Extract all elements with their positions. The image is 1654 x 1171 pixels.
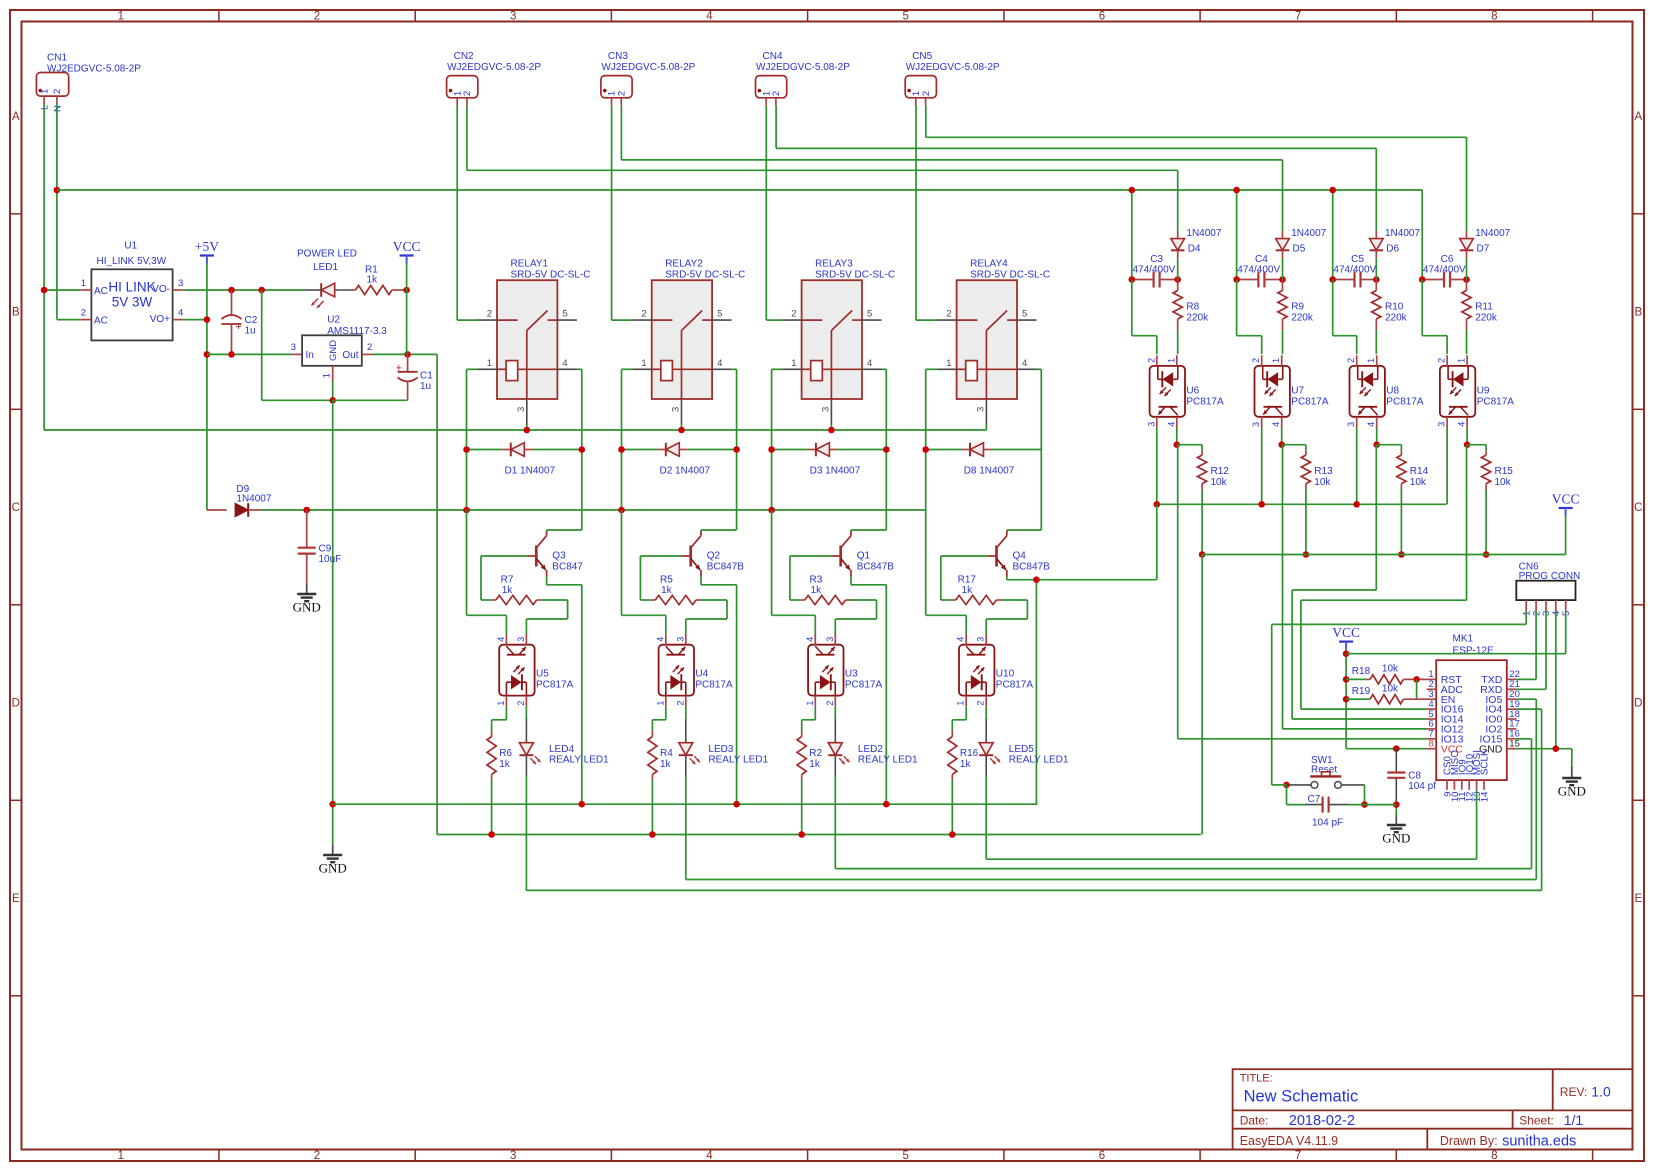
node D3 left junction: [768, 446, 775, 453]
svg-text:104 pF: 104 pF: [1312, 818, 1343, 829]
svg-text:2: 2: [367, 342, 372, 353]
power flag VCC at R18: [1332, 625, 1360, 650]
power module U1 HI_LINK 5V,3W: [80, 241, 184, 341]
optocoupler U9 PC817A: [1437, 355, 1515, 427]
wire VO+ to +5V: [184, 319, 207, 321]
wire opto pin4 down: [1376, 427, 1378, 444]
svg-text:4: 4: [655, 637, 665, 642]
wire opto pin4 down: [1176, 427, 1178, 444]
svg-text:GND: GND: [1382, 831, 1410, 846]
svg-text:2: 2: [921, 91, 932, 96]
svg-text:SCLK: SCLK: [1480, 749, 1491, 775]
wire Q1 collector jog: [851, 530, 886, 531]
node D8 left junction: [922, 446, 929, 453]
svg-text:L: L: [40, 105, 51, 110]
svg-text:U5: U5: [536, 669, 549, 680]
wire R6 to led return bus: [491, 780, 493, 835]
resistor R1 1k: [351, 265, 407, 295]
relay RELAY2 SRD-5V DC-SL-C: [632, 259, 745, 425]
svg-text:VO-: VO-: [152, 284, 170, 295]
wire D9 output bus y=510: [262, 509, 926, 511]
wire C8 to gnd node: [1395, 801, 1397, 815]
svg-text:D5: D5: [1293, 244, 1306, 255]
svg-text:ESP-12E: ESP-12E: [1453, 646, 1494, 657]
wire Q3 emitter down: [547, 577, 582, 805]
svg-text:2: 2: [1251, 358, 1261, 363]
node C5 right junction: [1373, 276, 1380, 283]
svg-text:1k: 1k: [502, 585, 514, 596]
resistor R2 1k: [797, 731, 822, 781]
svg-text:B: B: [12, 307, 20, 319]
svg-text:1: 1: [118, 11, 124, 23]
svg-text:4: 4: [956, 637, 966, 642]
wire N bus to C3 left: [1131, 190, 1133, 280]
svg-text:R15: R15: [1495, 466, 1514, 477]
svg-text:D3 1N4007: D3 1N4007: [810, 466, 861, 477]
svg-text:PC817A: PC817A: [536, 680, 574, 691]
svg-text:R6: R6: [499, 748, 512, 759]
wire R4 to led return bus: [651, 780, 653, 835]
wire led return bus y=834.5: [437, 834, 1201, 836]
svg-text:GND: GND: [293, 600, 321, 615]
svg-text:1: 1: [956, 701, 966, 706]
wire Q2 base network: [640, 556, 681, 600]
svg-text:+5V: +5V: [195, 239, 219, 254]
resistor R3 1k: [800, 575, 850, 605]
wire RELAY4 pin3 to L bus: [985, 425, 987, 431]
wire RELAY2 pin4 down: [732, 369, 737, 530]
resistor R4 1k: [648, 731, 673, 781]
svg-text:220k: 220k: [1186, 313, 1209, 324]
node RELAY4 pin3 junction: [0, 0, 1, 1]
wire R17 to opto pin3: [986, 600, 1027, 634]
transistor Q4 BC847B: [987, 531, 1050, 577]
svg-text:4: 4: [178, 308, 183, 319]
svg-text:D: D: [12, 698, 20, 710]
wire U7 chain to ESP pin6: [1283, 445, 1427, 729]
wire pin4 to R14: [1377, 445, 1402, 451]
wire U8 chain stair to ESP pin5: [1292, 445, 1427, 719]
svg-text:R4: R4: [660, 748, 673, 759]
svg-text:5: 5: [902, 11, 908, 23]
svg-text:3: 3: [825, 637, 835, 642]
node C6 N junction: [0, 0, 1, 1]
diode D5 1N4007: [1276, 228, 1327, 258]
node U9 pin4 junction: [1464, 441, 1471, 448]
power flag +5V: [195, 239, 219, 264]
resistor R6 1k: [487, 731, 512, 781]
connector CN5 WJ2EDGVC-5.08-2P: [905, 51, 1000, 106]
wire LED5 to io line: [985, 776, 987, 860]
node R18 right junction: [1413, 676, 1420, 683]
wire opto pin1 to R16: [952, 706, 966, 730]
optocoupler U3 PC817A: [805, 634, 883, 706]
svg-text:1: 1: [946, 358, 951, 369]
wire opto pin2 to LED5: [985, 706, 987, 742]
svg-text:POWER LED: POWER LED: [297, 249, 357, 260]
wire L bus y=430: [44, 429, 986, 431]
connector CN2 WJ2EDGVC-5.08-2P: [447, 51, 542, 106]
wire +5V vertical to VO+ and D9: [206, 264, 208, 511]
node D2 right junction: [733, 446, 740, 453]
svg-text:VO+: VO+: [150, 314, 170, 325]
svg-text:PC817A: PC817A: [1386, 397, 1424, 408]
svg-text:4: 4: [1022, 358, 1027, 369]
svg-text:2: 2: [617, 91, 628, 96]
svg-text:1.0: 1.0: [1591, 1083, 1611, 1099]
wire CN2 pin1 down to RELAY1 pin2: [457, 106, 477, 321]
diode D8 1N4007: [926, 443, 1042, 477]
wire opto pin2 to LED3: [685, 706, 687, 742]
wire U9 chain stair to ESP pin4: [1301, 445, 1467, 709]
svg-text:REALY LED1: REALY LED1: [1009, 755, 1069, 766]
node RELAY3 coil supply junction: [768, 507, 775, 514]
connector CN6 PROG CONN: [1516, 562, 1580, 617]
svg-text:474/400V: 474/400V: [1333, 264, 1376, 275]
resistor R16 1k: [948, 731, 979, 781]
svg-text:REALY LED1: REALY LED1: [549, 755, 609, 766]
svg-text:2: 2: [641, 309, 646, 320]
wire opto emitter bus y=504.3: [1157, 503, 1447, 505]
wire VCC out vertical x=437 to LED return bus: [436, 354, 438, 834]
svg-text:1N4007: 1N4007: [236, 494, 271, 505]
svg-text:CN5: CN5: [912, 51, 932, 62]
svg-text:2: 2: [675, 701, 685, 706]
svg-text:E: E: [1634, 893, 1642, 905]
node R19 left junction: [1343, 696, 1350, 703]
transistor Q1 BC847B: [831, 531, 894, 577]
diode D6 1N4007: [1370, 228, 1421, 258]
capacitor C9 10uF: [298, 510, 342, 584]
svg-text:3: 3: [975, 407, 986, 412]
svg-text:2: 2: [1437, 358, 1447, 363]
wire U2 GND down: [332, 381, 334, 400]
node D2 left junction: [618, 446, 625, 453]
svg-text:1: 1: [118, 1150, 124, 1162]
wire opto pin1 to R6: [492, 706, 507, 730]
svg-text:SRD-5V DC-SL-C: SRD-5V DC-SL-C: [665, 270, 745, 281]
svg-text:SRD-5V DC-SL-C: SRD-5V DC-SL-C: [511, 270, 591, 281]
wire SW1 right to C7 line: [1364, 785, 1366, 805]
svg-text:1N4007: 1N4007: [1385, 228, 1420, 239]
wire +5V rail y=354.4 to U2 In: [207, 353, 292, 355]
svg-text:A: A: [1634, 111, 1642, 123]
resistor R7 1k: [491, 575, 541, 605]
svg-text:1: 1: [1457, 358, 1467, 363]
svg-text:474/400V: 474/400V: [1237, 264, 1280, 275]
svg-text:sunitha.eds: sunitha.eds: [1502, 1133, 1576, 1149]
wire RELAY4 pin1 to coil supply: [926, 369, 937, 510]
node C6 right junction: [1463, 276, 1470, 283]
node C4 left junction: [1233, 276, 1240, 283]
svg-text:U3: U3: [845, 669, 858, 680]
svg-text:220k: 220k: [1291, 313, 1314, 324]
svg-text:U7: U7: [1291, 386, 1304, 397]
svg-text:Date:: Date:: [1240, 1114, 1269, 1128]
node RELAY1 pin3 junction: [524, 427, 531, 434]
svg-text:1k: 1k: [960, 759, 972, 770]
svg-text:10k: 10k: [1211, 477, 1228, 488]
optocoupler U10 PC817A: [956, 634, 1034, 706]
svg-text:REALY LED1: REALY LED1: [858, 755, 918, 766]
svg-text:3: 3: [510, 1150, 516, 1162]
regulator U2 AMS1117-3.3: [291, 314, 388, 381]
svg-text:1u: 1u: [420, 381, 431, 392]
node D1 left junction: [463, 446, 470, 453]
node C4 N junction: [1233, 187, 1240, 194]
svg-text:GND: GND: [319, 861, 347, 876]
svg-text:4: 4: [1366, 422, 1376, 427]
wire CN6 pin4 to GND line: [1555, 611, 1557, 749]
wire RST to EN vertical: [1416, 679, 1418, 699]
svg-text:1k: 1k: [661, 585, 673, 596]
svg-text:220k: 220k: [1385, 313, 1408, 324]
svg-text:5: 5: [562, 309, 567, 320]
ground GND bottom left: [319, 804, 347, 875]
svg-text:C1: C1: [420, 371, 433, 382]
wire R7 to opto pin3: [526, 600, 567, 634]
node D3 right junction: [883, 446, 890, 453]
svg-text:10k: 10k: [1495, 477, 1512, 488]
svg-text:2: 2: [976, 701, 986, 706]
svg-text:1: 1: [805, 701, 815, 706]
wire Q4 emitter down: [1007, 576, 1157, 804]
svg-text:D8 1N4007: D8 1N4007: [964, 466, 1015, 477]
wire RELAY2 pin1 to coil supply: [622, 369, 633, 510]
wire R15 to VCC bus: [1485, 489, 1487, 555]
svg-text:A: A: [12, 111, 20, 123]
wire D6 to C5 junction: [1375, 258, 1377, 279]
svg-text:PC817A: PC817A: [1291, 397, 1329, 408]
svg-text:+: +: [396, 363, 402, 375]
wire LED2 to io line: [834, 776, 836, 869]
svg-text:2: 2: [52, 89, 63, 94]
wire opto pin3 down: [1156, 427, 1158, 504]
svg-text:AC: AC: [94, 286, 108, 297]
resistor R13 10k: [1301, 450, 1333, 489]
node C2 top junction: [228, 287, 235, 294]
node C5 N junction: [1329, 187, 1336, 194]
svg-text:1: 1: [655, 701, 665, 706]
svg-text:R16: R16: [960, 748, 979, 759]
svg-text:15: 15: [1509, 739, 1520, 750]
led LED5 REALY LED1: [979, 743, 1069, 776]
optocoupler U4 PC817A: [655, 634, 733, 706]
svg-text:1: 1: [1366, 358, 1376, 363]
ground GND below C8: [1382, 815, 1410, 846]
svg-text:Out: Out: [342, 350, 358, 361]
svg-text:1: 1: [496, 701, 506, 706]
svg-text:BC847B: BC847B: [857, 562, 895, 573]
wire N bus to C5 left: [1332, 190, 1334, 280]
wire R12 bottom to led return bus: [1201, 555, 1203, 835]
wire C7 to C8 junction: [1348, 804, 1396, 806]
capacitor C8 104 pf: [1387, 749, 1436, 801]
svg-text:U4: U4: [695, 669, 708, 680]
resistor R15 10k: [1482, 450, 1514, 489]
diode D4 1N4007: [1171, 228, 1222, 258]
svg-text:1/1: 1/1: [1564, 1112, 1584, 1128]
wire opto pin4 to coil supply: [926, 510, 967, 634]
resistor R17 1k: [951, 575, 1001, 605]
wire Q3 collector jog: [547, 530, 582, 531]
svg-text:TITLE:: TITLE:: [1240, 1073, 1273, 1085]
resistor R9 220k: [1278, 280, 1314, 331]
svg-text:3: 3: [516, 407, 527, 412]
node C2 bottom junction: [228, 351, 235, 358]
svg-text:D1 1N4007: D1 1N4007: [505, 466, 556, 477]
svg-text:3: 3: [671, 407, 682, 412]
node C3 left junction: [1129, 276, 1136, 283]
node C3 N junction: [1129, 187, 1136, 194]
node C8 top junction: [1393, 745, 1400, 752]
wire LED4 to io line: [525, 776, 527, 891]
node RELAY2 pin3 junction: [678, 427, 685, 434]
wire CN6 pin1 to SW1: [1272, 611, 1527, 785]
resistor R19 10k: [1346, 683, 1427, 704]
wire CN6 pin2 to ESP TXD: [1516, 611, 1536, 679]
wire U6 chain to ESP pin7: [1178, 445, 1427, 739]
wire opto pin3 down: [1261, 427, 1263, 504]
svg-text:R2: R2: [809, 748, 822, 759]
wire CN5 pin1 down to RELAY4 pin2: [916, 106, 937, 321]
wire RELAY3 pin4 down: [882, 369, 887, 530]
capacitor C5 474/400V: [1333, 254, 1377, 288]
wire RELAY1 pin3 to L bus: [526, 425, 528, 431]
svg-text:BC847: BC847: [552, 562, 583, 573]
svg-text:LED2: LED2: [858, 744, 883, 755]
svg-text:3: 3: [1146, 422, 1156, 427]
wire R13 to VCC bus: [1305, 489, 1307, 555]
svg-text:HI_LINK 5V,3W: HI_LINK 5V,3W: [97, 256, 167, 267]
svg-text:1N4007: 1N4007: [1291, 228, 1326, 239]
svg-text:1: 1: [1166, 358, 1176, 363]
wire R2 to led return bus: [801, 780, 803, 835]
wire opto pin4 to coil supply: [467, 510, 507, 634]
wire VCC flag to bus: [1565, 516, 1567, 555]
svg-text:RELAY4: RELAY4: [970, 259, 1008, 270]
svg-text:5V 3W: 5V 3W: [112, 295, 153, 310]
resistor R14 10k: [1397, 450, 1429, 489]
svg-text:CN1: CN1: [47, 53, 67, 64]
svg-text:R5: R5: [660, 575, 673, 586]
svg-text:8: 8: [1428, 739, 1433, 750]
wire R5 to opto pin3: [686, 600, 727, 634]
wire CN2 pin2 stair to right section: [467, 106, 1178, 232]
svg-text:HI LINK: HI LINK: [108, 280, 155, 295]
svg-text:220k: 220k: [1475, 313, 1498, 324]
wire emitter gnd bus y=804: [333, 803, 1038, 805]
svg-text:Q2: Q2: [707, 551, 721, 562]
svg-text:5: 5: [902, 1150, 908, 1162]
svg-text:1: 1: [791, 358, 796, 369]
svg-text:C2: C2: [245, 315, 258, 326]
svg-text:10k: 10k: [1382, 664, 1399, 675]
svg-text:PC817A: PC817A: [996, 680, 1034, 691]
node GND branch junction at 261.7: [258, 287, 265, 294]
wire VO- output rail y=290: [184, 289, 306, 291]
wire ESP pin13 to LED5 line: [986, 790, 1476, 859]
diode D2 1N4007: [622, 443, 737, 477]
wire RELAY3 pin3 to L bus: [830, 425, 832, 431]
svg-text:Q1: Q1: [857, 551, 871, 562]
wire CN1 pin2 to U1 AC2: [57, 104, 80, 320]
switch SW1 Reset: [1287, 755, 1365, 788]
wire ESP pin20 IO5 to LED3 line: [686, 699, 1537, 879]
svg-text:REV:: REV:: [1560, 1085, 1588, 1099]
svg-text:CN4: CN4: [763, 51, 783, 62]
svg-text:CN3: CN3: [608, 51, 628, 62]
svg-text:REALY LED1: REALY LED1: [708, 755, 768, 766]
svg-text:R9: R9: [1291, 302, 1304, 313]
node R15 VCC junction: [1483, 551, 1490, 558]
svg-text:1k: 1k: [809, 759, 821, 770]
wire U2 Out to VCC/C1: [372, 353, 437, 355]
wire pin4 to R15: [1467, 445, 1486, 451]
svg-text:474/400V: 474/400V: [1423, 264, 1466, 275]
wire R10 to opto pin1: [1375, 330, 1377, 354]
node U6 pin4 junction: [1174, 441, 1181, 448]
svg-text:2: 2: [516, 701, 526, 706]
svg-text:14: 14: [1479, 792, 1490, 803]
wire CN3 pin1 down to RELAY2 pin2: [612, 106, 633, 321]
wire GND branch down to U2 gnd rail: [262, 290, 333, 400]
wire RELAY1 pin4 down: [577, 369, 582, 530]
svg-text:U1: U1: [124, 241, 137, 252]
wire R16 to led return bus: [951, 780, 953, 835]
svg-text:1N4007: 1N4007: [1186, 228, 1221, 239]
svg-text:4: 4: [1271, 422, 1281, 427]
wire D4 to C3 junction: [1177, 258, 1179, 279]
svg-text:U6: U6: [1186, 386, 1199, 397]
svg-text:Drawn By:: Drawn By:: [1440, 1134, 1498, 1148]
svg-text:7: 7: [1295, 11, 1301, 23]
svg-text:R17: R17: [958, 575, 977, 586]
svg-text:1k: 1k: [660, 759, 672, 770]
wire Q1 base network: [790, 556, 831, 600]
wire opto pin2 to LED4: [525, 706, 527, 742]
svg-text:Sheet:: Sheet:: [1519, 1114, 1554, 1128]
node Q2 emitter gnd junction: [733, 801, 740, 808]
resistor R11 220k: [1462, 280, 1498, 331]
svg-text:R10: R10: [1385, 302, 1404, 313]
title block: [1233, 1069, 1633, 1149]
svg-text:1k: 1k: [811, 585, 823, 596]
svg-text:4: 4: [706, 1150, 713, 1162]
svg-text:In: In: [306, 350, 314, 361]
wire Q4 base network: [941, 556, 987, 600]
wire Q1 emitter down: [851, 577, 886, 805]
wire VCC bus y=554.5: [1202, 554, 1566, 556]
svg-text:C8: C8: [1408, 771, 1421, 782]
ground GND below C9: [293, 584, 321, 615]
wire U2 GND long vertical to bottom GND: [332, 400, 334, 804]
svg-text:PROG CONN: PROG CONN: [1519, 571, 1581, 582]
wire R8 to opto pin1: [1177, 330, 1179, 354]
svg-text:RELAY3: RELAY3: [815, 259, 853, 270]
svg-text:LED5: LED5: [1009, 744, 1034, 755]
node SW1 left junction: [1283, 782, 1290, 789]
resistor R5 1k: [651, 575, 701, 605]
svg-text:WJ2EDGVC-5.08-2P: WJ2EDGVC-5.08-2P: [906, 62, 1000, 73]
svg-text:D2 1N4007: D2 1N4007: [660, 466, 711, 477]
svg-text:R11: R11: [1475, 302, 1493, 313]
wire VCC vertical to pin8: [1346, 650, 1427, 749]
svg-text:3: 3: [1346, 422, 1356, 427]
svg-text:3: 3: [675, 637, 685, 642]
capacitor C6 474/400V: [1422, 254, 1466, 288]
wire RELAY1 pin1 to coil supply: [467, 369, 478, 510]
